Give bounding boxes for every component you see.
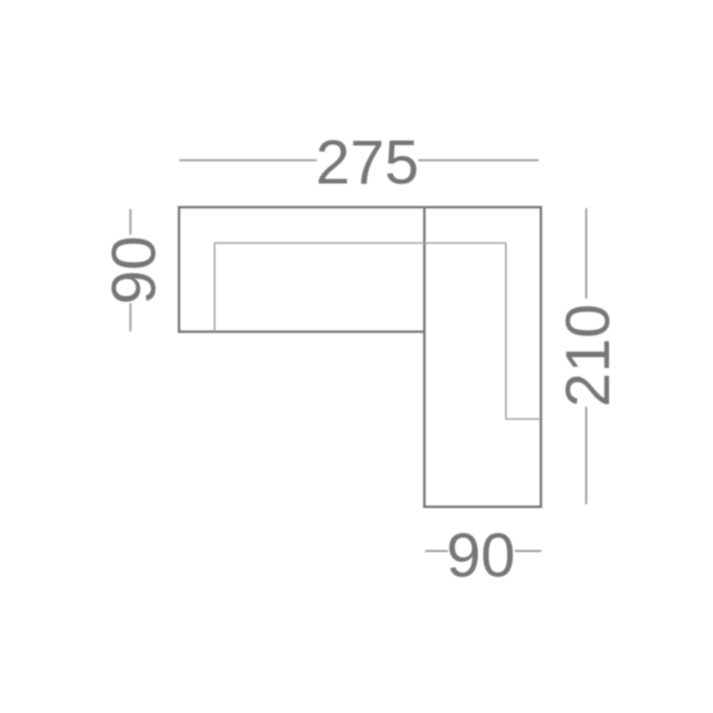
wire outer top edge [178,206,542,208]
wire bottom dimension line left segment [425,550,448,552]
svg-text:90: 90 [446,522,515,591]
dimension lines [130,160,586,551]
wire right dimension line top segment [585,208,587,299]
wire inner right vertical seat line [505,243,507,419]
wire bottom dimension line right segment [515,550,542,552]
wire top dimension line right segment [418,159,539,161]
wire left dimension line bottom segment [129,303,131,331]
wire inner bottom-right horizontal seat line [506,418,541,420]
wire right dimension line bottom segment [585,407,587,505]
wire right section bottom edge [423,506,542,508]
wire outer left edge [178,206,180,333]
wire inner horizontal seat line [215,242,506,244]
svg-text:210: 210 [554,304,623,407]
wire outer right edge [540,206,542,508]
svg-text:90: 90 [100,236,169,305]
wire left dimension line top segment [129,209,131,235]
wire top dimension line left segment [179,159,316,161]
sofa inner seat outline [215,243,541,419]
sofa outer outline [178,206,542,508]
wire inner left vertical seat line [214,243,216,332]
wire divider vertical [423,206,425,508]
svg-text:275: 275 [316,129,419,198]
wire left section bottom edge [179,331,424,333]
